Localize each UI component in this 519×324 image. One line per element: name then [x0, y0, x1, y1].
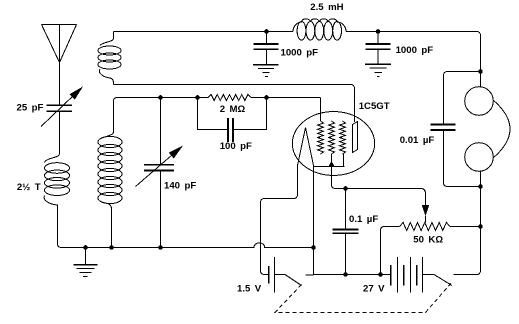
svg-text:1000 pF: 1000 pF: [281, 47, 319, 58]
svg-text:0.01 µF: 0.01 µF: [400, 135, 435, 146]
svg-text:27 V: 27 V: [363, 284, 385, 295]
svg-text:140 pF: 140 pF: [164, 181, 196, 192]
svg-text:1000 pF: 1000 pF: [396, 45, 434, 56]
svg-text:1.5 V: 1.5 V: [237, 284, 262, 295]
svg-text:25 pF: 25 pF: [17, 103, 44, 114]
svg-text:2½ T: 2½ T: [17, 182, 41, 193]
svg-text:2 MΩ: 2 MΩ: [220, 104, 246, 115]
svg-text:100 pF: 100 pF: [220, 141, 252, 152]
svg-text:0.1 µF: 0.1 µF: [349, 214, 378, 225]
svg-text:1C5GT: 1C5GT: [359, 101, 390, 112]
svg-text:2.5 mH: 2.5 mH: [310, 2, 343, 13]
svg-text:50 KΩ: 50 KΩ: [413, 235, 443, 246]
